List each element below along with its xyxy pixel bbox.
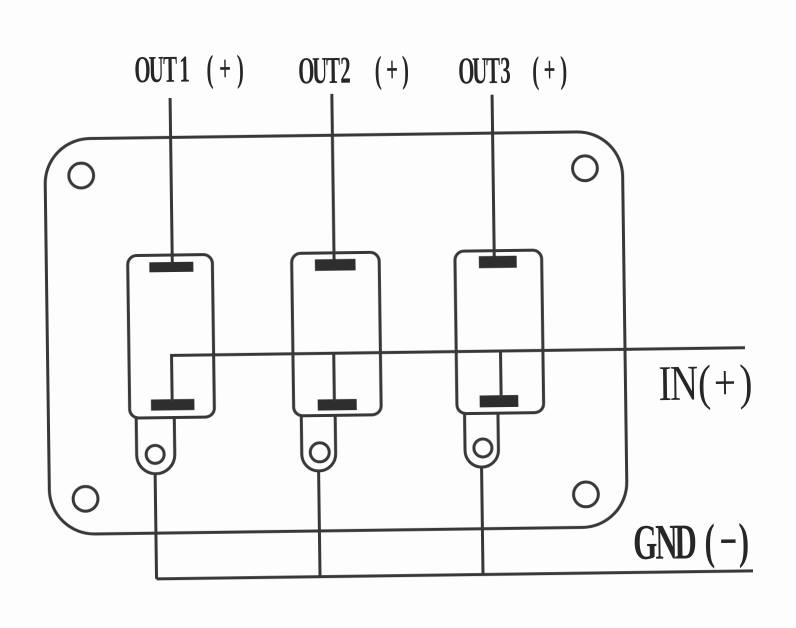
SW1 terminal hole	[146, 445, 164, 463]
mounting hole bottom-left	[73, 486, 98, 511]
wire OUT1	[170, 98, 172, 267]
svg-text:IN(+): IN(+)	[658, 354, 753, 411]
SW3 terminal tab	[465, 413, 499, 467]
panel outline	[45, 131, 628, 534]
svg-text:OUT1(+): OUT1(+)	[134, 47, 244, 91]
SW2 bottom contact bar	[318, 399, 357, 411]
svg-text:OUT2(+): OUT2(+)	[298, 48, 409, 92]
wire GND from SW3 terminal	[482, 467, 483, 574]
svg-text:OUT3(+): OUT3(+)	[458, 49, 567, 93]
SW1 terminal tab	[136, 418, 175, 475]
SW1 top contact bar	[149, 262, 193, 273]
mounting hole top-left	[69, 163, 94, 188]
IN stub into SW3	[499, 351, 503, 398]
mounting hole top-right	[572, 156, 597, 181]
SW2 terminal hole	[310, 443, 329, 462]
SW2 top contact bar	[315, 259, 356, 271]
wire OUT3	[492, 95, 494, 262]
SW1 bottom contact bar	[151, 399, 195, 411]
mounting hole bottom-right	[573, 482, 598, 507]
wire OUT2	[332, 94, 334, 265]
SW3 terminal hole	[474, 439, 492, 457]
switch SW2 body	[292, 252, 382, 416]
SW3 bottom contact bar	[480, 395, 519, 407]
IN stub into SW2	[332, 353, 336, 401]
switch SW3 body	[455, 250, 544, 414]
SW2 terminal tab	[301, 415, 336, 471]
wire GND from SW1 terminal	[155, 474, 156, 579]
SW3 top contact bar	[479, 256, 517, 269]
switch SW1 body	[128, 254, 215, 418]
wire GND from SW2 terminal	[319, 471, 320, 577]
wire IN bus with drop into SW1	[172, 348, 746, 402]
svg-text:GND(−): GND(−)	[633, 513, 750, 571]
wire GND bus	[157, 571, 753, 579]
